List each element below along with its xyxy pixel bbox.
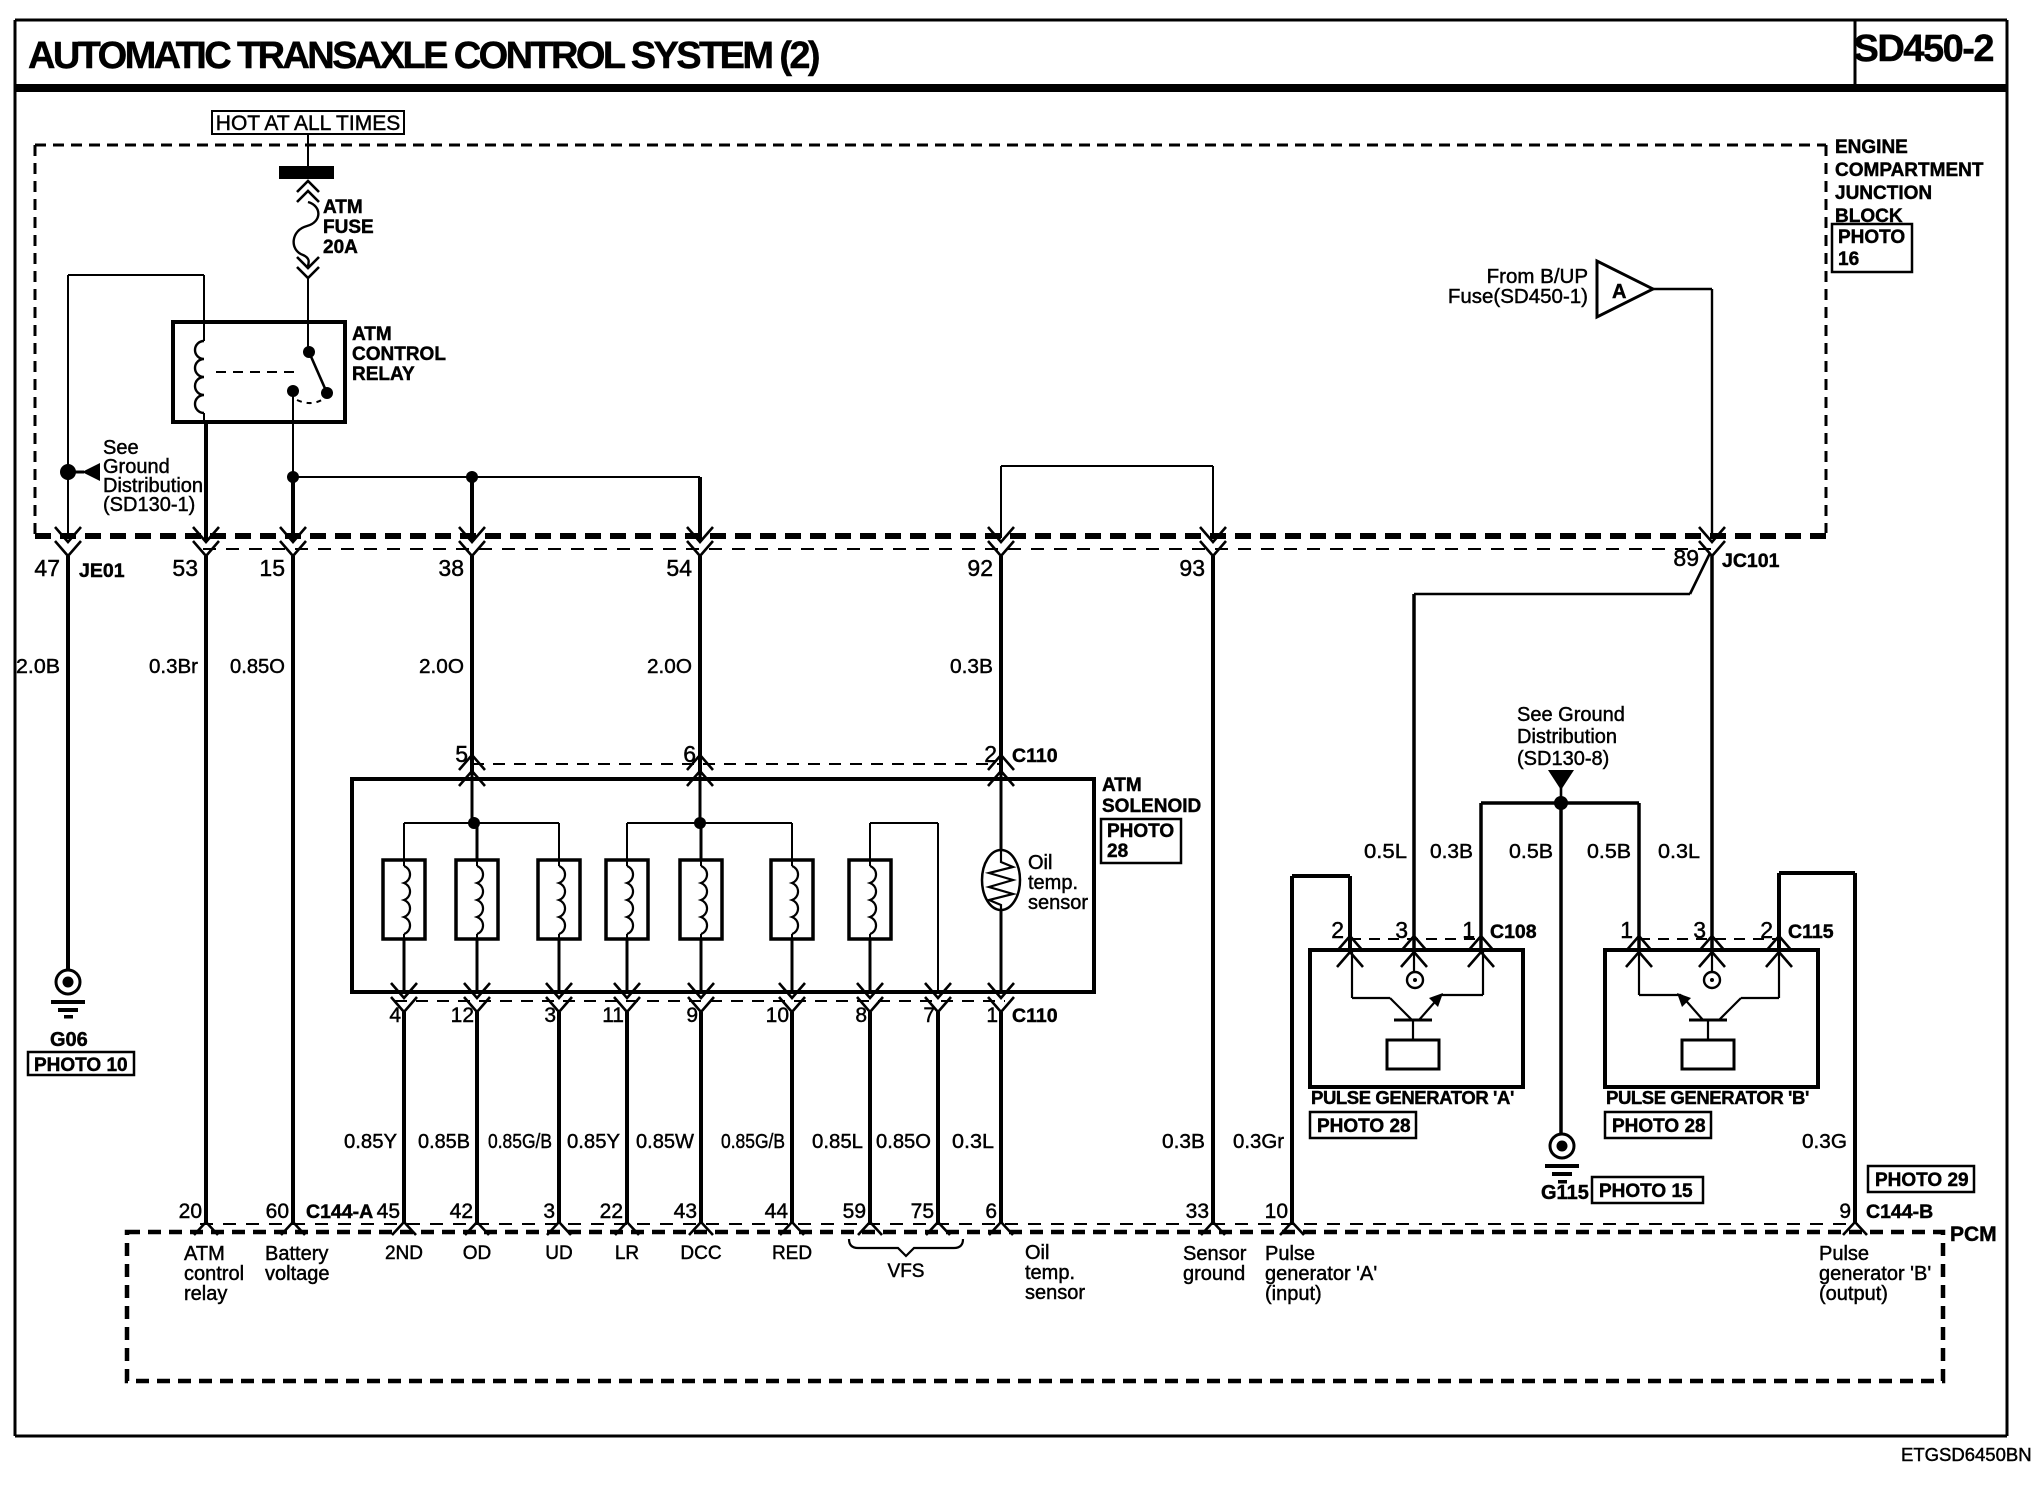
pin label 1 (C108) [1462,917,1475,943]
wire: solenoid bus A [404,822,559,824]
svg-text:PULSE GENERATOR 'A': PULSE GENERATOR 'A' [1311,1087,1514,1108]
svg-text:0.5L: 0.5L [1364,840,1407,863]
label: Sensor ground (PCM) [1183,1243,1247,1285]
svg-text:(input): (input) [1265,1283,1322,1305]
pin label 15 [259,555,285,581]
value label: ATM FUSE 20A [323,197,374,258]
pin label 75 (C144) [911,1200,934,1223]
svg-text:53: 53 [172,555,198,581]
svg-text:Distribution: Distribution [1517,726,1617,748]
svg-text:9: 9 [1839,1200,1851,1223]
connector C110 (top) mating line [472,763,1001,765]
wire 0.85G/B (solenoid to PCM) [557,1012,561,1224]
wire: A to JC101 pin 89 [1653,289,1712,538]
svg-text:generator 'B': generator 'B' [1819,1263,1931,1285]
label: ATM SOLENOID [1102,775,1201,817]
svg-text:PCM: PCM [1950,1223,1997,1246]
solenoid coil L6 (RED) [771,860,813,939]
wire: solenoid 3 bottom lead [558,939,561,992]
wire 0.85G/B (solenoid to PCM) [790,1012,794,1224]
label: ENGINE COMPARTMENT JUNCTION BLOCK [1835,137,1984,227]
connector C110 pin 6 [687,755,713,786]
svg-text:2.0O: 2.0O [647,655,692,678]
svg-text:45: 45 [377,1200,400,1223]
svg-text:3: 3 [543,1200,555,1223]
value label 0.3B [950,655,993,678]
svg-text:0.85B: 0.85B [418,1130,470,1153]
label: Pulse generator 'B' (output) (PCM) [1819,1243,1931,1305]
off-page connector A (triangle) [1597,261,1653,317]
pin label 9 (C144) [1839,1200,1851,1223]
svg-text:ATM: ATM [1102,775,1142,796]
connector JE01 pin 47 [55,527,81,556]
pin label 54 [666,555,692,581]
wire: bus drop to solenoid 1 [403,823,405,860]
svg-text:ATM: ATM [323,197,363,218]
svg-text:JC101: JC101 [1722,550,1780,572]
pin label 5 [455,741,468,767]
wire: connector 54 drop [698,477,702,540]
connector C144 pin 60 [281,1222,305,1235]
wire: bus drop to solenoid 7 [869,823,871,860]
pin label 89 / JC101 [1673,545,1779,572]
pin label 10 (C144) [1265,1200,1288,1223]
svg-text:DCC: DCC [680,1243,721,1264]
connector C115 pin 1 [1626,936,1652,967]
wire 2.0O (pin38 to C110-5) [470,556,474,775]
connector C110 pin 12 (bottom) [464,983,490,1012]
label G115 [1541,1182,1589,1204]
junction: ground distribution tap on pin47 wire [60,464,76,480]
svg-text:Battery: Battery [265,1243,328,1265]
connector C110 pin 7 (bottom) [925,983,951,1012]
label: From B/UP Fuse(SD450-1) [1448,265,1588,308]
bracket: VFS pins 59/75 [849,1239,963,1256]
svg-text:temp.: temp. [1025,1262,1075,1284]
wire 0.3L (solenoid to PCM) [999,1012,1003,1224]
pin label 59 (C144) [843,1200,866,1223]
svg-text:6: 6 [985,1200,997,1223]
svg-text:COMPARTMENT: COMPARTMENT [1835,160,1984,181]
connector C144 pin 20 [194,1222,218,1235]
label box: PHOTO 28 (solenoid) [1101,819,1181,863]
connector name C110 (bottom) [1012,1005,1058,1027]
svg-text:0.3B: 0.3B [1430,840,1473,863]
svg-text:2.0O: 2.0O [419,655,464,678]
pin label 3 (C115) [1693,917,1706,943]
component PULSE GENERATOR 'B' (box) [1605,950,1818,1087]
wire: solenoid 6 bottom lead [791,939,794,992]
wire: junction block bus pins 92-93 [1001,466,1213,538]
node: HOT AT ALL TIMES (power feed box) [212,111,404,135]
connector C144 pin 42 [465,1222,489,1235]
pin label 9 (C110 bottom) [686,1004,698,1027]
svg-text:0.85L: 0.85L [812,1130,863,1153]
connector JC101 pin 89 [1699,527,1725,556]
label: OD (PCM) [463,1243,492,1264]
wire: relay switch output down [292,391,294,477]
svg-text:2: 2 [1760,917,1773,943]
wire 0.85O (solenoid to PCM) [936,1012,940,1224]
pin label 33 (C144) [1186,1200,1209,1223]
junction: solenoid bus B [694,817,706,829]
svg-text:3: 3 [544,1004,556,1027]
svg-text:43: 43 [674,1200,697,1223]
svg-text:1: 1 [1620,917,1633,943]
svg-text:92: 92 [967,555,993,581]
wire: feed to connectors 38/54 [293,476,700,478]
connector C110 pin 2 [988,755,1014,786]
wire: pin5 into solenoid bus [471,771,474,823]
solenoid coil L5 (DCC) [680,860,722,939]
wire: connector 38 drop [470,477,474,540]
svg-text:9: 9 [686,1004,698,1027]
svg-text:voltage: voltage [265,1263,330,1285]
wire 0.85L (solenoid to PCM) [868,1012,872,1224]
solenoid coil L2 (OD) [456,860,498,939]
pin label 22 (C144) [600,1200,623,1223]
svg-text:47: 47 [34,555,60,581]
connector C144 pin 3 [547,1222,571,1235]
svg-text:PHOTO 29: PHOTO 29 [1875,1170,1969,1191]
connector C110 pin 4 (bottom) [391,983,417,1012]
connector C144 pin 33 [1201,1222,1225,1235]
label: DCC (PCM) [680,1243,721,1264]
solenoid coil L1 (2ND) [383,860,425,939]
svg-text:0.85O: 0.85O [230,655,285,678]
svg-text:C110: C110 [1012,745,1058,767]
module PCM (dashed box) [127,1232,1943,1381]
value label 0.3L (pulse gen B) [1658,840,1700,863]
svg-text:0.85Y: 0.85Y [344,1130,397,1153]
label: VFS (PCM) [888,1261,925,1282]
wire 0.3B (ground to C108-1) [1479,803,1483,952]
wire 0.85W (solenoid to PCM) [699,1012,703,1224]
connector C110 pin 10 (bottom) [779,983,805,1012]
value label 0.85Y [567,1130,620,1153]
relay coil [195,322,204,422]
pin label 43 (C144) [674,1200,697,1223]
svg-text:7: 7 [923,1004,935,1027]
wire 0.5B (ground junction to G115) [1559,803,1563,1134]
value label 2.0O [419,655,464,678]
svg-text:C144-A: C144-A [306,1201,373,1223]
svg-text:AUTOMATIC TRANSAXLE CONTROL SY: AUTOMATIC TRANSAXLE CONTROL SYSTEM (2) [28,35,819,77]
svg-text:C108: C108 [1490,921,1537,943]
svg-text:11: 11 [602,1004,624,1027]
connector name C144-B [1866,1201,1933,1223]
pin label 7 (C110 bottom) [923,1004,935,1027]
value label 0.85G/B [488,1130,552,1153]
svg-text:temp.: temp. [1028,872,1078,894]
value label 0.85Y [344,1130,397,1153]
connector C144 pin 9 [1843,1222,1867,1235]
pulse generator B pickup [1639,952,1779,1069]
svg-text:ETGSD6450BN: ETGSD6450BN [1901,1444,2032,1465]
junction: relay output node [287,471,299,483]
svg-text:LR: LR [615,1243,639,1264]
wire: bus drop to solenoid 3 [558,823,560,860]
connector C144 pin 43 [689,1222,713,1235]
wire: connector 15 drop [291,477,295,540]
svg-text:RED: RED [772,1243,812,1264]
connector name C108 [1490,921,1537,943]
svg-text:(SD130-8): (SD130-8) [1517,748,1609,770]
svg-text:ground: ground [1183,1263,1245,1285]
svg-text:PHOTO: PHOTO [1838,227,1905,248]
pin label 2 / C110 [984,741,1057,767]
label: ATM control relay (PCM) [184,1243,244,1305]
svg-text:16: 16 [1838,249,1859,270]
svg-text:0.3G: 0.3G [1802,1130,1847,1153]
value label 0.3Gr [1233,1130,1284,1153]
fuse ATM FUSE 20A [279,166,334,278]
svg-text:0.5B: 0.5B [1509,840,1553,863]
svg-text:2: 2 [984,741,997,767]
svg-text:8: 8 [855,1004,867,1027]
svg-text:75: 75 [911,1200,934,1223]
connector JC101 pin 93 [1200,527,1226,556]
svg-text:44: 44 [765,1200,789,1223]
connector C144 pin 59 [858,1222,882,1235]
connector JC101 pin 92 [988,527,1014,556]
wire: bus drop to solenoid 5 [700,823,703,860]
svg-text:42: 42 [450,1200,473,1223]
wire: solenoid 4 bottom lead [626,939,629,992]
svg-text:A: A [1612,281,1626,303]
wire 0.3L (JC101-89 to C115-3) [1710,556,1714,952]
svg-text:3: 3 [1693,917,1706,943]
pin label 20 (C144) [179,1200,202,1223]
pin label 53 [172,555,198,581]
wire 2.0B (pin47 to G06) [66,556,70,970]
svg-text:PULSE GENERATOR 'B': PULSE GENERATOR 'B' [1606,1087,1809,1108]
svg-text:(SD130-1): (SD130-1) [103,494,195,516]
svg-text:C144-B: C144-B [1866,1201,1933,1223]
svg-text:FUSE: FUSE [323,217,374,238]
connector C144 pin 6 [989,1222,1013,1235]
off-page arrow: See Ground Distribution (SD130-1) [68,463,100,481]
wire 0.85O (pin15 to PCM 60) [291,556,295,1224]
svg-text:C110: C110 [1012,1005,1058,1027]
pin label 3 (C108) [1395,917,1408,943]
pin label 1 (C115) [1620,917,1633,943]
pin label 38 [438,555,464,581]
pin label 3 (C110 bottom) [544,1004,556,1027]
pin label 8 (C110 bottom) [855,1004,867,1027]
label: LR (PCM) [615,1243,639,1264]
connector C115 mating line [1639,938,1779,940]
svg-text:Oil: Oil [1025,1242,1049,1264]
svg-text:Oil: Oil [1028,852,1052,874]
off-page arrow: See Ground Distribution (SD130-8) [1548,770,1574,803]
svg-text:JE01: JE01 [79,560,125,582]
svg-text:Sensor: Sensor [1183,1243,1247,1265]
label box: PHOTO 15 [1592,1177,1703,1203]
label: RED (PCM) [772,1243,812,1264]
svg-text:0.5B: 0.5B [1587,840,1631,863]
ground G06 [51,970,85,1019]
connector C115 pin 2 [1766,936,1792,967]
svg-text:0.85G/B: 0.85G/B [488,1130,552,1153]
value label 0.3L [952,1130,994,1153]
relay coil-switch link (dashed) [216,371,296,373]
svg-text:Pulse: Pulse [1265,1243,1315,1265]
svg-text:ENGINE: ENGINE [1835,137,1908,158]
value label 0.5B (G115) [1509,840,1553,863]
junction: branch to 38 [466,471,478,483]
pin label 11 (C110 bottom) [602,1004,624,1027]
svg-text:(output): (output) [1819,1283,1888,1305]
connector C144 mating line (thin dashed) [200,1223,1858,1225]
value label 2.0O (2) [647,655,692,678]
wire: bus drop to solenoid 4 [626,823,628,860]
component PULSE GENERATOR 'A' (box) [1310,950,1523,1087]
pin label 10 (C110 bottom) [766,1004,789,1027]
svg-text:28: 28 [1107,841,1128,862]
label box: PHOTO 29 [1868,1166,1974,1192]
connector JC101 pin 15 [280,527,306,556]
svg-text:0.85O: 0.85O [876,1130,931,1153]
svg-text:PHOTO 28: PHOTO 28 [1317,1116,1411,1137]
pin label 6 (C144) [985,1200,997,1223]
solenoid coil L4 (LR) [606,860,648,939]
pin label 45 (C144) [377,1200,400,1223]
svg-text:Fuse(SD450-1): Fuse(SD450-1) [1448,285,1588,308]
pin label 60 (C144) [266,1200,289,1223]
value label 0.85O [230,655,285,678]
value label 0.85L [812,1130,863,1153]
svg-text:sensor: sensor [1028,892,1088,914]
wire: bus drop to solenoid 2 [476,823,479,860]
svg-text:C115: C115 [1788,921,1834,943]
pin label 47 / JE01 [34,555,124,582]
svg-text:0.85G/B: 0.85G/B [721,1130,785,1153]
connector C144 pin 22 [615,1222,639,1235]
wire 0.3B (pin92 to C110-2) [999,556,1003,775]
svg-text:G06: G06 [50,1029,88,1051]
label: 2ND (PCM) [385,1243,423,1264]
wire: solenoid 7 bottom lead [869,939,872,992]
svg-text:0.85W: 0.85W [636,1130,695,1153]
svg-text:G115: G115 [1541,1182,1589,1204]
svg-text:54: 54 [666,555,692,581]
svg-text:relay: relay [184,1283,227,1305]
svg-text:ATM: ATM [352,324,392,345]
label box: PHOTO 28 (pulse gen B) [1605,1112,1711,1138]
label: Battery voltage (PCM) [265,1243,330,1285]
wire 0.5L (JC101-89 to C108-3) [1414,553,1710,952]
wire 0.3G (C115-2 to PCM 9) [1779,873,1855,1224]
solenoid coil L7 (VFS) [849,860,891,939]
connector C110 pin 8 (bottom) [857,983,883,1012]
wire 0.85Y (solenoid to PCM) [402,1012,406,1224]
svg-text:JUNCTION: JUNCTION [1835,183,1932,204]
label: PULSE GENERATOR 'B' [1606,1087,1809,1108]
label: Pulse generator 'A' (input) (PCM) [1265,1243,1377,1305]
connector C110 pin 11 (bottom) [614,983,640,1012]
svg-text:10: 10 [1265,1200,1288,1223]
pin label 6 [683,741,696,767]
svg-text:SD450-2: SD450-2 [1854,28,1994,70]
svg-text:59: 59 [843,1200,866,1223]
connector C108 pin 3 [1401,936,1427,967]
svg-text:See Ground: See Ground [1517,704,1625,726]
wire 0.3B (pin93 to PCM 33 sensor ground) [1211,556,1215,1224]
ground G115 [1545,1134,1579,1184]
wire: solenoid bus B [627,822,792,824]
connector C110 pin 3 (bottom) [546,983,572,1012]
svg-text:control: control [184,1263,244,1285]
label G06 [50,1029,88,1051]
svg-text:UD: UD [545,1243,572,1264]
svg-text:60: 60 [266,1200,289,1223]
connector C110 pin 1 (bottom) [988,983,1014,1012]
value label 0.85G/B [721,1130,785,1153]
svg-text:1: 1 [1462,917,1475,943]
wire: fuse to relay [307,278,309,352]
wire: relay coil top loop to JE01 pin 47 [68,275,204,538]
value label 0.85B [418,1130,470,1153]
svg-text:12: 12 [451,1004,474,1027]
wire 0.85Y (solenoid to PCM) [625,1012,629,1224]
svg-text:sensor: sensor [1025,1282,1085,1304]
wire: hot feed down to fuse [307,134,309,166]
wire 0.85B (solenoid to PCM) [475,1012,479,1224]
value label 0.5L [1364,840,1407,863]
svg-text:20A: 20A [323,237,358,258]
value label 0.3G [1802,1130,1847,1153]
wire 0.3Gr (C108-2 to PCM 10) [1292,876,1350,1224]
svg-text:ATM: ATM [184,1243,225,1265]
connector C115 pin 3 [1699,936,1725,967]
connector C144 pin 75 [926,1222,950,1235]
svg-text:2ND: 2ND [385,1243,423,1264]
value label 0.5B (C115-1) [1587,840,1631,863]
junction: pulse generator shield ground [1554,796,1568,810]
svg-text:0.3B: 0.3B [950,655,993,678]
svg-text:38: 38 [438,555,464,581]
svg-text:22: 22 [600,1200,623,1223]
wire 0.5B (ground to C115-1) [1637,803,1641,952]
label box: PHOTO 28 (pulse gen A) [1310,1112,1416,1138]
svg-text:SOLENOID: SOLENOID [1102,796,1201,817]
sensor: oil temp sensor (thermistor) [982,771,1020,992]
connector C110 pin 5 [459,755,485,786]
wire: solenoid 1 bottom lead [403,939,406,992]
svg-text:CONTROL: CONTROL [352,344,446,365]
svg-text:2: 2 [1331,917,1344,943]
solenoid coil L3 (UD) [538,860,580,939]
label: ATM CONTROL RELAY [352,324,446,385]
wire 0.3Br (pin53 to PCM 20) [204,556,208,1224]
svg-text:0.3L: 0.3L [1658,840,1700,863]
svg-text:93: 93 [1179,555,1205,581]
svg-text:33: 33 [1186,1200,1209,1223]
pin label 42 (C144) [450,1200,473,1223]
wire 2.0O (pin54 to C110-6) [698,556,702,775]
component ATM SOLENOID (box) [352,779,1094,992]
svg-text:PHOTO: PHOTO [1107,821,1174,842]
label PCM [1950,1223,1997,1246]
pin label 44 (C144) [765,1200,789,1223]
value label 0.3B (sensor ground) [1162,1130,1205,1153]
value label 0.3Br [149,655,198,678]
svg-text:RELAY: RELAY [352,364,415,385]
svg-text:0.3Br: 0.3Br [149,655,198,678]
connector C110 (bottom) mating line [395,1000,1005,1002]
connector C108 mating line [1350,938,1481,940]
